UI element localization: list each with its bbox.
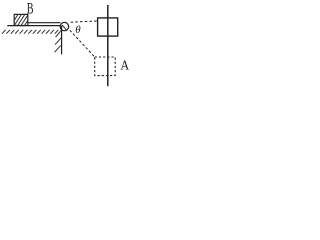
wall edge below pulley — [61, 26, 63, 55]
table surface line — [7, 25, 62, 27]
dashed square A — [95, 57, 116, 76]
vertical rail — [107, 5, 109, 86]
svg-text:θ: θ — [75, 24, 81, 36]
string from B to pulley — [28, 22, 61, 24]
svg-text:A: A — [120, 59, 130, 74]
wall hatching — [55, 30, 62, 52]
solid square block on rail — [98, 18, 118, 36]
svg-text:B: B — [27, 1, 34, 18]
block B — [10, 14, 33, 28]
pulley inner mark — [62, 25, 66, 30]
dashed horizontal string position — [71, 21, 98, 22]
dashed diagonal string to A — [70, 30, 95, 57]
pulley — [60, 22, 68, 30]
ground hatching — [2, 30, 58, 34]
